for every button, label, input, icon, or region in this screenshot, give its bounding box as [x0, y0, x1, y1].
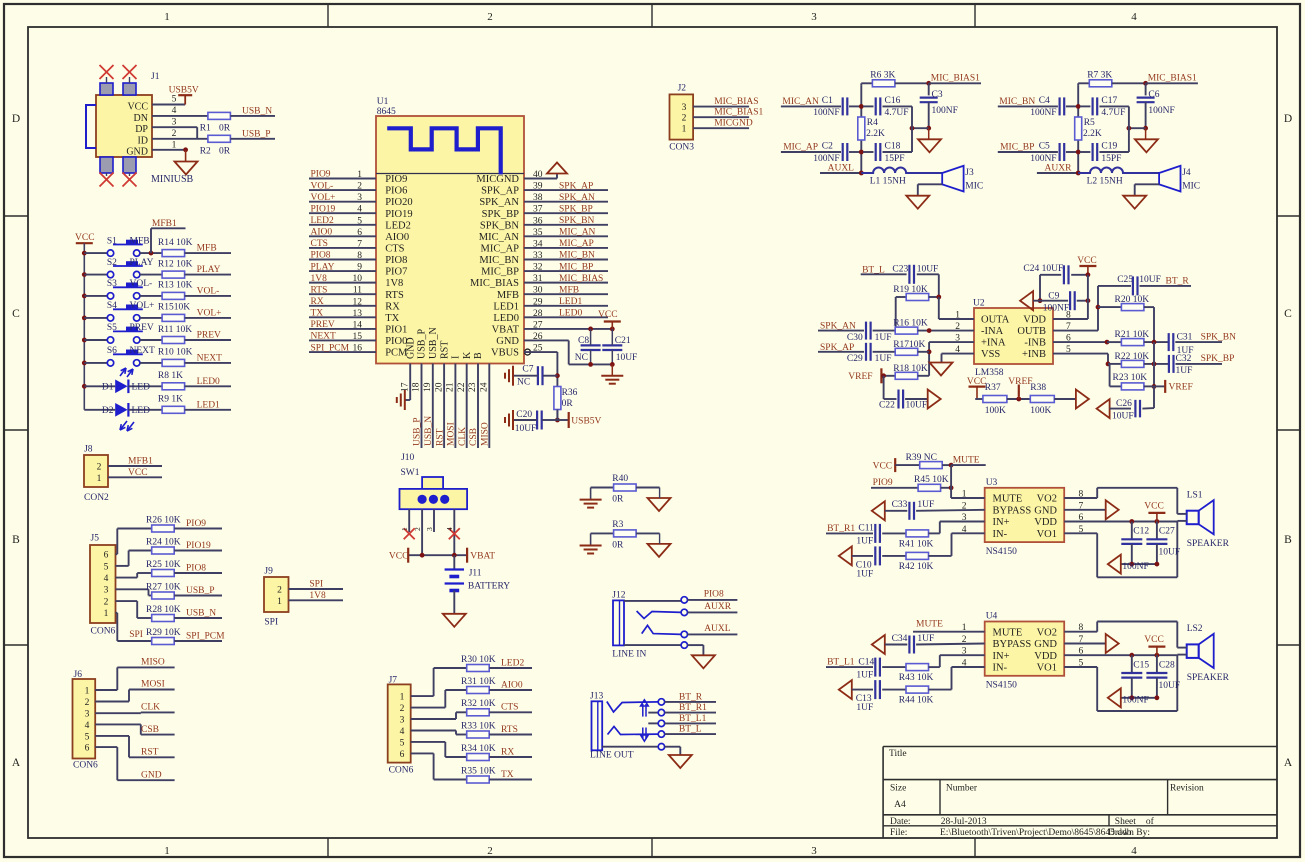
svg-text:NC: NC — [517, 378, 530, 388]
svg-text:2: 2 — [400, 704, 405, 714]
svg-text:100NF: 100NF — [1030, 154, 1056, 164]
svg-text:3: 3 — [357, 193, 362, 203]
svg-text:1UF: 1UF — [875, 333, 892, 343]
svg-text:2: 2 — [413, 527, 422, 531]
svg-text:18: 18 — [412, 382, 422, 392]
svg-text:100NF: 100NF — [813, 154, 839, 164]
svg-text:NEXT: NEXT — [130, 346, 156, 356]
svg-text:R37: R37 — [985, 383, 1001, 393]
svg-text:AUXR: AUXR — [1045, 164, 1073, 174]
svg-text:File:: File: — [890, 828, 907, 838]
svg-text:PIO8: PIO8 — [385, 255, 407, 266]
svg-text:C5: C5 — [1039, 142, 1050, 152]
svg-text:R32 10K: R32 10K — [461, 699, 496, 709]
svg-text:MIC_AN: MIC_AN — [559, 228, 596, 238]
svg-text:6: 6 — [104, 551, 109, 561]
svg-text:GND: GND — [126, 147, 148, 158]
svg-text:BYPASS: BYPASS — [993, 505, 1032, 516]
svg-text:22: 22 — [457, 382, 467, 392]
svg-text:20: 20 — [434, 382, 444, 392]
svg-text:B: B — [473, 352, 484, 359]
svg-text:C31: C31 — [1177, 332, 1193, 342]
svg-text:R1510K: R1510K — [158, 303, 190, 313]
svg-text:R43 10K: R43 10K — [899, 673, 934, 683]
svg-text:C12: C12 — [1133, 527, 1149, 537]
svg-text:R25 10K: R25 10K — [146, 560, 181, 570]
svg-text:0R: 0R — [612, 540, 624, 550]
svg-text:0R: 0R — [562, 399, 574, 409]
svg-text:VOL+: VOL+ — [311, 193, 336, 203]
svg-text:IN-: IN- — [993, 663, 1008, 674]
svg-text:1: 1 — [164, 11, 170, 23]
svg-text:VDD: VDD — [1034, 651, 1057, 662]
svg-text:4: 4 — [85, 721, 90, 731]
svg-text:PIO19: PIO19 — [385, 209, 412, 220]
svg-text:1V8: 1V8 — [309, 591, 326, 601]
svg-text:C15: C15 — [1133, 660, 1149, 670]
svg-text:1: 1 — [400, 527, 409, 531]
svg-text:R6 3K: R6 3K — [870, 71, 895, 81]
svg-text:R2: R2 — [200, 147, 211, 157]
svg-text:TX: TX — [385, 313, 399, 324]
svg-text:RTS: RTS — [385, 290, 404, 301]
svg-text:14: 14 — [353, 320, 363, 330]
svg-text:C: C — [1284, 308, 1292, 320]
svg-text:LED: LED — [132, 406, 151, 416]
svg-text:R9 1K: R9 1K — [158, 395, 183, 405]
svg-text:SPK_AN: SPK_AN — [559, 193, 595, 203]
svg-text:LED2: LED2 — [311, 216, 334, 226]
svg-text:R22 10K: R22 10K — [1115, 352, 1150, 362]
svg-text:PIO6: PIO6 — [385, 186, 407, 197]
svg-text:-INB: -INB — [1024, 338, 1046, 349]
svg-text:15: 15 — [353, 332, 363, 342]
svg-text:LS2: LS2 — [1187, 624, 1203, 634]
svg-text:100NF: 100NF — [813, 108, 839, 118]
svg-text:J8: J8 — [84, 445, 93, 455]
svg-text:MFB: MFB — [130, 236, 150, 246]
svg-text:C14: C14 — [858, 657, 874, 667]
svg-text:MIC_BP: MIC_BP — [481, 267, 519, 278]
svg-text:1: 1 — [97, 474, 102, 484]
svg-text:8645: 8645 — [377, 107, 396, 117]
svg-text:I: I — [451, 356, 462, 359]
svg-text:R26 10K: R26 10K — [146, 515, 181, 525]
svg-text:USB_P: USB_P — [186, 586, 215, 596]
svg-text:RST: RST — [435, 428, 445, 446]
svg-text:BT_R1: BT_R1 — [827, 524, 855, 534]
svg-text:C23: C23 — [892, 265, 908, 275]
svg-text:R5: R5 — [1084, 118, 1095, 128]
svg-text:VOL-: VOL- — [311, 181, 334, 191]
svg-text:R44 10K: R44 10K — [899, 696, 934, 706]
svg-text:J9: J9 — [264, 567, 273, 577]
svg-text:J10: J10 — [401, 453, 414, 463]
svg-text:MUTE: MUTE — [916, 620, 943, 630]
svg-text:R13 10K: R13 10K — [158, 281, 193, 291]
svg-text:RTS: RTS — [501, 725, 518, 735]
svg-text:CLK: CLK — [141, 703, 160, 713]
svg-text:SPK_BN: SPK_BN — [480, 220, 520, 231]
svg-text:E:\Bluetooth\Triven\Project\De: E:\Bluetooth\Triven\Project\Demo\8645\86… — [940, 828, 1132, 838]
svg-text:C29: C29 — [847, 354, 863, 364]
svg-text:100NF: 100NF — [1122, 562, 1148, 572]
svg-text:LINE OUT: LINE OUT — [590, 751, 634, 761]
svg-text:S1: S1 — [107, 236, 117, 246]
svg-text:LED0: LED0 — [559, 309, 582, 319]
svg-text:10UF: 10UF — [515, 424, 537, 434]
svg-text:R3: R3 — [612, 520, 623, 530]
svg-text:Sheet: Sheet — [1115, 817, 1136, 827]
svg-text:VO1: VO1 — [1037, 663, 1057, 674]
svg-text:MIC: MIC — [1182, 182, 1200, 192]
svg-text:5: 5 — [172, 95, 177, 105]
svg-text:J3: J3 — [965, 168, 974, 178]
svg-text:S4: S4 — [107, 301, 117, 311]
svg-text:SPK_BN: SPK_BN — [1201, 332, 1237, 342]
svg-text:LED1: LED1 — [493, 301, 519, 312]
svg-text:R30 10K: R30 10K — [461, 655, 496, 665]
svg-text:PIO9: PIO9 — [311, 170, 331, 180]
svg-text:VCC: VCC — [1144, 635, 1164, 645]
svg-text:SPK_AP: SPK_AP — [559, 181, 593, 191]
svg-text:LED0: LED0 — [197, 377, 220, 387]
svg-text:SPK_BP: SPK_BP — [1201, 354, 1235, 364]
svg-text:D: D — [12, 113, 20, 125]
svg-text:LS1: LS1 — [1187, 491, 1203, 501]
svg-text:3: 3 — [811, 11, 817, 23]
svg-text:0R: 0R — [612, 495, 624, 505]
svg-text:DN: DN — [134, 113, 148, 124]
svg-text:Size: Size — [890, 784, 906, 794]
svg-text:B: B — [12, 534, 20, 546]
svg-text:28-Jul-2013: 28-Jul-2013 — [941, 817, 987, 827]
svg-text:21: 21 — [446, 382, 456, 392]
svg-text:1UF: 1UF — [917, 500, 934, 510]
svg-text:C30: C30 — [847, 333, 863, 343]
svg-text:MUTE: MUTE — [993, 494, 1023, 505]
svg-text:R34 10K: R34 10K — [461, 744, 496, 754]
svg-text:10UF: 10UF — [906, 401, 928, 411]
svg-text:PREV: PREV — [311, 320, 335, 330]
svg-text:ID: ID — [137, 136, 148, 147]
svg-text:4: 4 — [1131, 11, 1137, 23]
svg-text:RST: RST — [439, 341, 450, 359]
svg-text:4: 4 — [172, 106, 177, 116]
svg-text:C2: C2 — [822, 142, 833, 152]
svg-text:2.2K: 2.2K — [866, 129, 885, 139]
svg-text:R28 10K: R28 10K — [146, 605, 181, 615]
svg-text:RX: RX — [311, 297, 324, 307]
svg-text:AUXL: AUXL — [828, 164, 855, 174]
svg-text:GND: GND — [405, 337, 416, 359]
svg-text:13: 13 — [353, 309, 363, 319]
svg-text:USB_N: USB_N — [186, 608, 216, 618]
svg-text:SPK_BP: SPK_BP — [482, 209, 520, 220]
svg-text:R40: R40 — [612, 474, 628, 484]
svg-text:GND: GND — [141, 770, 162, 780]
svg-text:SPK_BN: SPK_BN — [559, 216, 595, 226]
svg-text:15PF: 15PF — [1101, 154, 1121, 164]
svg-text:R4: R4 — [867, 118, 878, 128]
svg-text:TX: TX — [311, 309, 324, 319]
svg-text:AIO0: AIO0 — [311, 228, 333, 238]
svg-text:AIO0: AIO0 — [501, 680, 523, 690]
svg-text:100NF: 100NF — [1043, 303, 1069, 313]
svg-text:2: 2 — [487, 11, 493, 23]
svg-text:6: 6 — [400, 750, 405, 760]
svg-text:MFB: MFB — [497, 290, 519, 301]
svg-text:C7: C7 — [522, 365, 533, 375]
svg-text:C17: C17 — [1101, 96, 1117, 106]
svg-text:A4: A4 — [894, 800, 906, 810]
svg-text:R21 10K: R21 10K — [1115, 330, 1150, 340]
svg-text:3: 3 — [85, 710, 90, 720]
svg-text:10UF: 10UF — [1159, 548, 1181, 558]
svg-text:CON6: CON6 — [73, 761, 98, 771]
svg-text:MICGND: MICGND — [476, 174, 519, 185]
svg-text:1: 1 — [400, 693, 405, 703]
svg-text:R33 10K: R33 10K — [461, 721, 496, 731]
svg-text:GND: GND — [1034, 639, 1057, 650]
svg-text:R35 10K: R35 10K — [461, 766, 496, 776]
svg-text:MFB1: MFB1 — [152, 219, 177, 229]
svg-text:R39 NC: R39 NC — [906, 453, 937, 463]
svg-text:CON6: CON6 — [91, 627, 116, 637]
svg-text:1UF: 1UF — [875, 354, 892, 364]
svg-text:OUTB: OUTB — [1017, 326, 1046, 337]
svg-text:VREF: VREF — [1008, 377, 1032, 387]
svg-text:5: 5 — [357, 216, 362, 226]
svg-text:BT_R1: BT_R1 — [679, 703, 707, 713]
svg-text:PIO7: PIO7 — [385, 267, 407, 278]
svg-text:4.7UF: 4.7UF — [885, 108, 909, 118]
svg-text:C19: C19 — [1101, 142, 1117, 152]
svg-text:1UF: 1UF — [917, 634, 934, 644]
svg-text:5: 5 — [400, 738, 405, 748]
svg-text:R31 10K: R31 10K — [461, 677, 496, 687]
svg-text:USB_P: USB_P — [417, 329, 428, 359]
svg-text:1UF: 1UF — [856, 569, 873, 579]
svg-text:R8 1K: R8 1K — [158, 371, 183, 381]
svg-text:C3: C3 — [932, 90, 943, 100]
svg-text:10UF: 10UF — [616, 353, 638, 363]
svg-text:SPK_AN: SPK_AN — [479, 197, 519, 208]
svg-text:0R: 0R — [219, 124, 231, 134]
svg-text:USB_N: USB_N — [242, 107, 272, 117]
svg-text:MIC_BIAS: MIC_BIAS — [470, 278, 519, 289]
svg-text:4: 4 — [445, 527, 454, 531]
svg-text:CON2: CON2 — [84, 493, 109, 503]
svg-text:J1: J1 — [151, 72, 160, 82]
svg-text:MIC_BIAS: MIC_BIAS — [714, 97, 758, 107]
svg-text:R7 3K: R7 3K — [1087, 71, 1112, 81]
svg-text:MIC_BIAS1: MIC_BIAS1 — [931, 73, 980, 83]
svg-text:100NF: 100NF — [1148, 106, 1174, 116]
svg-text:SPI: SPI — [309, 580, 323, 590]
svg-text:C24 10UF: C24 10UF — [1023, 264, 1063, 274]
svg-text:MIC_BN: MIC_BN — [999, 97, 1035, 107]
svg-text:A: A — [1284, 757, 1293, 769]
svg-text:19: 19 — [423, 382, 433, 392]
svg-text:R23 10K: R23 10K — [1113, 373, 1148, 383]
svg-text:2: 2 — [682, 114, 687, 124]
svg-text:2: 2 — [357, 182, 362, 192]
svg-text:1UF: 1UF — [856, 703, 873, 713]
svg-text:LED: LED — [132, 383, 151, 393]
svg-text:Drawn By:: Drawn By: — [1108, 828, 1150, 838]
svg-text:PIO9: PIO9 — [873, 478, 893, 488]
svg-text:MOSI: MOSI — [447, 422, 457, 446]
svg-text:U3: U3 — [986, 478, 998, 488]
svg-text:USB5V: USB5V — [169, 86, 199, 96]
svg-text:VBUS: VBUS — [491, 348, 519, 359]
svg-text:2.2K: 2.2K — [1083, 129, 1102, 139]
svg-text:R41 10K: R41 10K — [899, 539, 934, 549]
svg-text:12: 12 — [353, 297, 363, 307]
svg-text:3: 3 — [104, 586, 109, 596]
svg-text:3: 3 — [425, 527, 434, 531]
svg-text:J13: J13 — [590, 692, 603, 702]
svg-text:VBAT: VBAT — [492, 325, 520, 336]
svg-text:OUTA: OUTA — [981, 315, 1010, 326]
svg-text:3: 3 — [682, 103, 687, 113]
svg-text:C: C — [12, 308, 20, 320]
svg-text:1UF: 1UF — [856, 537, 873, 547]
svg-text:-INA: -INA — [981, 326, 1004, 337]
svg-text:CSB: CSB — [469, 428, 479, 446]
svg-text:MIC_AN: MIC_AN — [782, 97, 819, 107]
svg-text:Date:: Date: — [890, 817, 911, 827]
svg-text:1V8: 1V8 — [385, 278, 403, 289]
svg-text:LED2: LED2 — [385, 220, 411, 231]
svg-text:PREV: PREV — [197, 331, 221, 341]
svg-text:D: D — [1284, 113, 1292, 125]
svg-text:100K: 100K — [985, 406, 1006, 416]
svg-text:GND: GND — [1034, 505, 1057, 516]
svg-text:SPK_BP: SPK_BP — [559, 204, 593, 214]
svg-text:VDD: VDD — [1034, 517, 1057, 528]
svg-text:PIO8: PIO8 — [704, 589, 724, 599]
svg-text:0R: 0R — [219, 147, 231, 157]
svg-text:R1: R1 — [200, 124, 211, 134]
svg-text:RST: RST — [141, 748, 159, 758]
svg-text:LED0: LED0 — [493, 313, 519, 324]
svg-text:PIO0: PIO0 — [385, 336, 407, 347]
svg-text:2: 2 — [97, 463, 102, 473]
svg-text:J11: J11 — [469, 569, 482, 579]
svg-text:MISO: MISO — [141, 658, 165, 668]
svg-text:MINIUSB: MINIUSB — [151, 174, 194, 185]
svg-text:Title: Title — [889, 749, 907, 759]
svg-text:C11: C11 — [858, 524, 874, 534]
svg-text:15PF: 15PF — [885, 154, 905, 164]
svg-text:VCC: VCC — [127, 102, 148, 113]
svg-text:PIO9: PIO9 — [186, 519, 206, 529]
svg-text:PLAY: PLAY — [311, 262, 335, 272]
svg-text:SPI: SPI — [129, 630, 143, 640]
svg-text:U4: U4 — [986, 612, 998, 622]
svg-text:10: 10 — [353, 274, 363, 284]
svg-text:VREF: VREF — [1169, 383, 1193, 393]
svg-text:DP: DP — [135, 124, 148, 135]
svg-text:NC: NC — [575, 353, 588, 363]
svg-text:PIO1: PIO1 — [385, 325, 407, 336]
svg-text:B: B — [1284, 534, 1292, 546]
svg-text:Number: Number — [946, 784, 978, 794]
svg-text:C21: C21 — [615, 336, 631, 346]
svg-text:10UF: 10UF — [917, 265, 939, 275]
svg-text:R38: R38 — [1030, 383, 1046, 393]
svg-text:AIO0: AIO0 — [385, 232, 409, 243]
svg-text:R45 10K: R45 10K — [914, 475, 949, 485]
svg-text:S3: S3 — [107, 279, 117, 289]
svg-text:BYPASS: BYPASS — [993, 639, 1032, 650]
svg-text:VCC: VCC — [1144, 502, 1164, 512]
svg-text:SPEAKER: SPEAKER — [1187, 673, 1230, 683]
svg-text:PIO20: PIO20 — [385, 197, 412, 208]
svg-text:3: 3 — [172, 118, 177, 128]
svg-text:NS4150: NS4150 — [986, 681, 1017, 691]
svg-text:K: K — [462, 351, 473, 359]
svg-text:IN+: IN+ — [993, 517, 1010, 528]
svg-text:C22: C22 — [879, 401, 895, 411]
svg-text:2: 2 — [277, 586, 282, 596]
svg-text:CON3: CON3 — [669, 143, 694, 153]
svg-text:LED2: LED2 — [501, 658, 524, 668]
svg-text:J2: J2 — [678, 84, 687, 94]
svg-text:5: 5 — [104, 562, 109, 572]
svg-text:R1710K: R1710K — [893, 340, 925, 350]
svg-text:2: 2 — [104, 598, 109, 608]
svg-text:R18 10K: R18 10K — [893, 364, 928, 374]
svg-text:C27: C27 — [1159, 527, 1175, 537]
svg-text:C32: C32 — [1176, 354, 1192, 364]
svg-text:S2: S2 — [107, 258, 117, 268]
svg-text:USB_P: USB_P — [413, 417, 423, 446]
svg-text:PIO8: PIO8 — [186, 563, 206, 573]
svg-text:C26: C26 — [1116, 399, 1132, 409]
svg-text:VOL-: VOL- — [197, 286, 220, 296]
svg-text:11: 11 — [353, 286, 362, 296]
svg-text:D2: D2 — [102, 406, 114, 416]
svg-text:C20: C20 — [516, 410, 532, 420]
svg-text:PIO19: PIO19 — [186, 541, 211, 551]
svg-text:9: 9 — [357, 263, 362, 273]
svg-text:MIC_BN: MIC_BN — [559, 251, 595, 261]
svg-text:C28: C28 — [1159, 660, 1175, 670]
svg-text:R24 10K: R24 10K — [146, 537, 181, 547]
svg-text:BATTERY: BATTERY — [468, 582, 510, 592]
svg-text:MIC_BIAS1: MIC_BIAS1 — [1148, 73, 1197, 83]
svg-text:IN+: IN+ — [993, 651, 1010, 662]
svg-text:BT_R: BT_R — [1166, 277, 1190, 287]
svg-text:MIC_BN: MIC_BN — [479, 255, 519, 266]
svg-text:CLK: CLK — [458, 427, 468, 446]
svg-text:R16 10K: R16 10K — [893, 319, 928, 329]
svg-text:MIC_AP: MIC_AP — [559, 239, 594, 249]
svg-text:R10 10K: R10 10K — [158, 348, 193, 358]
svg-text:2: 2 — [487, 845, 493, 857]
svg-text:PREV: PREV — [130, 323, 154, 333]
svg-text:6: 6 — [357, 228, 362, 238]
svg-text:J4: J4 — [1182, 168, 1191, 178]
svg-text:23: 23 — [468, 382, 478, 392]
svg-text:SPEAKER: SPEAKER — [1187, 539, 1230, 549]
svg-text:USB_N: USB_N — [428, 327, 439, 359]
svg-text:24: 24 — [480, 382, 490, 392]
svg-text:SPK_AP: SPK_AP — [481, 186, 519, 197]
